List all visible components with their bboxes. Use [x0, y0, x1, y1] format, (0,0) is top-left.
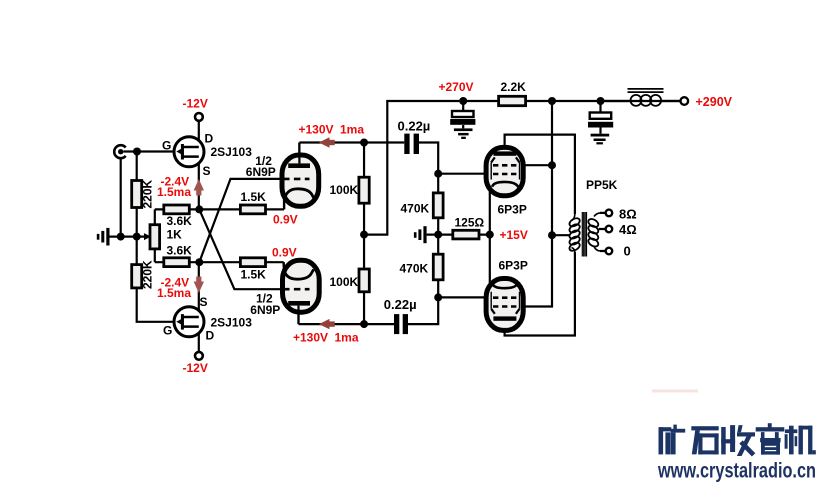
svg-text:1.5K: 1.5K	[241, 268, 267, 282]
svg-text:470K: 470K	[401, 202, 430, 216]
svg-text:0.22µ: 0.22µ	[384, 297, 417, 312]
svg-text:100K: 100K	[330, 183, 359, 197]
svg-text:1.5ma: 1.5ma	[157, 286, 191, 300]
svg-text:6P3P: 6P3P	[499, 259, 528, 273]
svg-text:100K: 100K	[330, 275, 359, 289]
svg-text:PP5K: PP5K	[586, 178, 618, 192]
svg-text:+15V: +15V	[500, 228, 528, 242]
svg-text:+130V: +130V	[293, 330, 328, 344]
svg-text:+130V: +130V	[299, 123, 334, 137]
svg-text:0.22µ: 0.22µ	[398, 119, 431, 134]
svg-text:D: D	[205, 131, 214, 145]
svg-text:0.9V: 0.9V	[272, 245, 297, 259]
svg-text:220K: 220K	[141, 179, 155, 208]
svg-text:D: D	[206, 328, 215, 342]
svg-text:-12V: -12V	[183, 361, 208, 375]
svg-text:0.9V: 0.9V	[273, 212, 298, 226]
svg-text:S: S	[203, 164, 211, 178]
svg-text:-12V: -12V	[183, 97, 208, 111]
svg-text:470K: 470K	[400, 262, 429, 276]
svg-text:6N9P: 6N9P	[250, 303, 280, 317]
svg-text:1.5K: 1.5K	[241, 190, 267, 204]
svg-text:3.6K: 3.6K	[167, 244, 193, 258]
svg-text:www.crystalradio.cn: www.crystalradio.cn	[657, 459, 816, 483]
svg-text:G: G	[162, 139, 171, 153]
svg-text:6P3P: 6P3P	[498, 202, 527, 216]
svg-text:125Ω: 125Ω	[455, 216, 485, 230]
svg-text:220K: 220K	[141, 260, 155, 289]
svg-text:1K: 1K	[167, 228, 183, 242]
svg-text:G: G	[163, 324, 172, 338]
svg-text:8Ω: 8Ω	[619, 206, 637, 221]
svg-text:1ma: 1ma	[340, 123, 364, 137]
svg-text:3.6K: 3.6K	[167, 214, 193, 228]
svg-text:+270V: +270V	[439, 80, 474, 94]
svg-text:2.2K: 2.2K	[501, 80, 527, 94]
svg-text:1ma: 1ma	[335, 330, 359, 344]
svg-text:0: 0	[624, 244, 631, 259]
svg-text:4Ω: 4Ω	[619, 222, 637, 237]
svg-text:S: S	[200, 295, 208, 309]
svg-text:6N9P: 6N9P	[246, 165, 276, 179]
svg-text:2SJ103: 2SJ103	[211, 145, 253, 159]
svg-text:+290V: +290V	[696, 95, 733, 109]
svg-text:1.5ma: 1.5ma	[157, 185, 191, 199]
svg-text:2SJ103: 2SJ103	[211, 316, 253, 330]
